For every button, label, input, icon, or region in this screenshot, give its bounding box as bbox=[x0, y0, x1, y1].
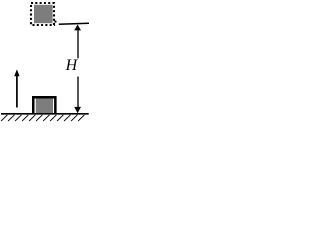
initial velocity arrow shaft bbox=[16, 74, 18, 108]
ground hatching bbox=[1, 115, 84, 121]
up arrowhead bbox=[74, 25, 81, 31]
height reference tick line bbox=[59, 23, 89, 24]
block at maximum height: dotted outline bbox=[31, 3, 54, 25]
block inside launcher bbox=[36, 99, 53, 114]
dimension line upper shaft bbox=[77, 29, 79, 58]
down arrowhead bbox=[74, 107, 81, 113]
launcher box outer wall bbox=[32, 96, 57, 114]
dimension line lower shaft bbox=[77, 77, 79, 108]
svg-text:H: H bbox=[65, 57, 79, 74]
ground line bbox=[1, 113, 89, 115]
block at maximum height: gray fill bbox=[34, 5, 53, 23]
extra border dot at block corner bbox=[54, 21, 56, 23]
launcher box inner cavity bbox=[35, 99, 55, 114]
initial velocity arrowhead bbox=[14, 69, 19, 76]
